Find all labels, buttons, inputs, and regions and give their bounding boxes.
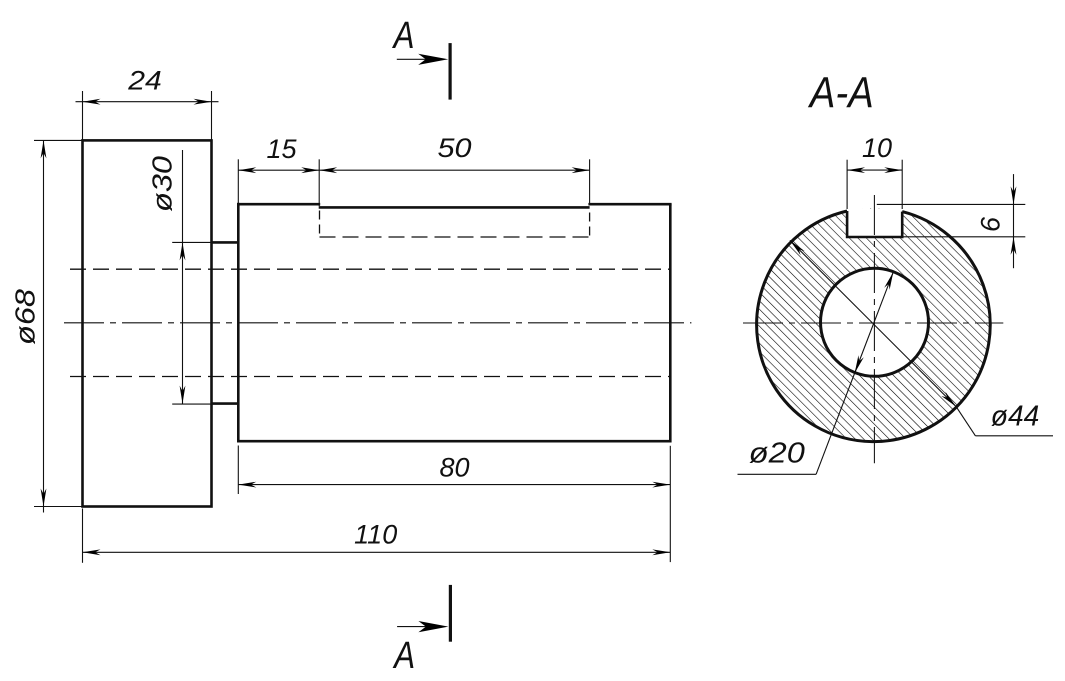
section mark bottom arrow [397,626,441,628]
dim 110 extension line [82,509,84,563]
svg-text:A: A [392,15,415,57]
shaft top edge left of keyway [237,203,320,206]
dim dia44 diameter line [790,240,956,406]
dim dia20 diameter line [855,272,894,373]
outer circle dia44 with keyway gap [757,211,991,442]
dim 24 line [76,101,219,103]
section mark top arrow [397,58,441,60]
svg-text:ø68: ø68 [10,289,41,345]
hidden line keyway end edge [589,213,591,238]
section mark bottom line [449,585,452,642]
dim dia20 leader [816,373,855,474]
dim 6 extension lines [877,203,1026,205]
shaft top edge right of keyway [588,203,671,206]
dim 15/50 extension lines [237,159,239,203]
svg-text:A: A [392,635,415,677]
neck bottom edge [212,402,239,405]
hidden line hole top [70,268,670,270]
svg-text:15: 15 [266,134,297,164]
dim dia44 leader [956,407,975,436]
dim 24 extension lines [82,91,84,140]
section horizontal centerline [743,322,1003,324]
dim 10 extension lines [846,160,848,209]
dim dia30 extension lines [172,241,211,243]
dim 80 line [238,484,670,486]
section hatching [757,208,991,442]
svg-text:ø44: ø44 [991,400,1040,432]
hidden line keyway start edge [319,211,321,238]
keyway slot outline [847,211,902,237]
svg-text:6: 6 [976,216,1006,232]
dim dia68 line [43,140,45,512]
dim 6 line [1013,174,1015,268]
dim dia68 extension lines [34,139,83,141]
shaft top edge over keyway [319,206,590,209]
dim 10 line [847,169,902,171]
svg-text:ø20: ø20 [749,437,805,469]
svg-text:80: 80 [439,453,469,483]
dim 15 line [238,169,319,171]
section vertical centerline [873,195,875,463]
section mark top line [449,43,452,100]
hidden line hole bottom [70,376,670,378]
svg-text:10: 10 [862,133,892,163]
flange outline [83,140,212,506]
svg-text:ø30: ø30 [147,156,178,212]
hidden line keyway bottom [320,236,590,238]
svg-text:A-A: A-A [807,69,874,118]
shaft left face [237,203,240,443]
centerline main axis [64,322,691,324]
dim 80 extension lines [237,446,239,495]
dim dia30 line [182,150,184,404]
inner circle dia20 [821,268,929,376]
dim 110 line [83,551,671,553]
neck top edge [212,241,239,244]
svg-text:110: 110 [354,520,397,550]
svg-text:50: 50 [438,133,472,163]
shaft right face [669,204,672,442]
shaft bottom edge [237,440,670,443]
dim 50 line [319,169,589,171]
svg-text:24: 24 [127,66,162,96]
